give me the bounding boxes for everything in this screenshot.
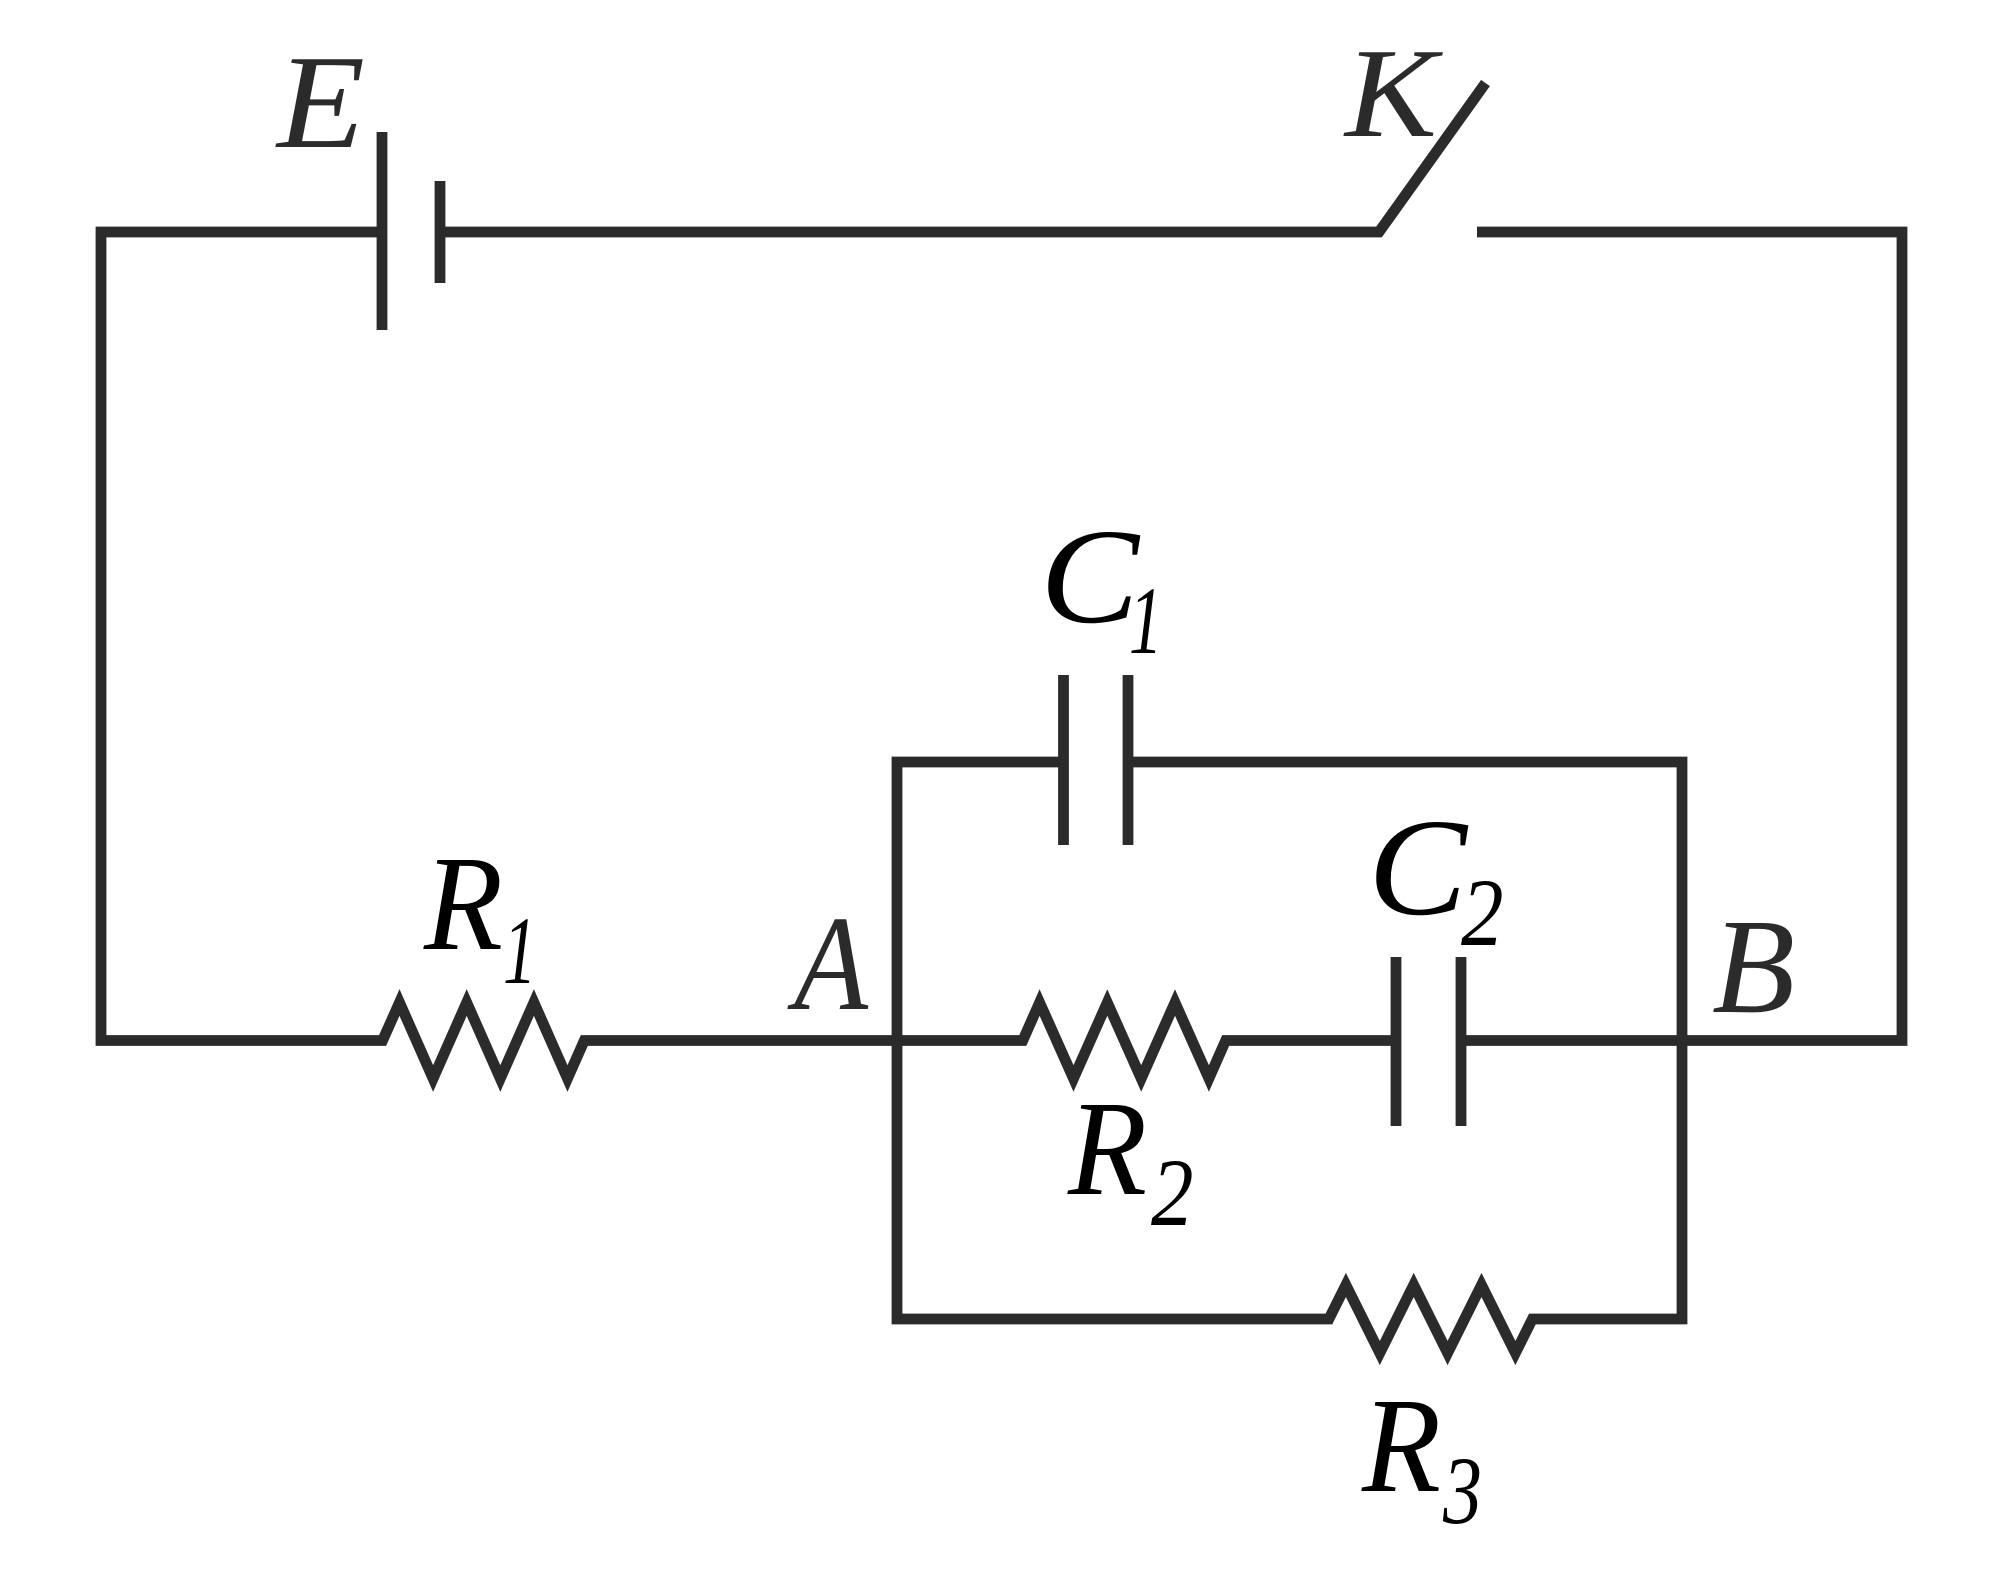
svg-text:1: 1	[503, 897, 537, 1004]
svg-text:2: 2	[1461, 859, 1504, 966]
svg-text:2: 2	[1151, 1139, 1194, 1246]
svg-text:C: C	[1368, 791, 1468, 945]
svg-text:C: C	[1040, 502, 1140, 652]
svg-text:3: 3	[1442, 1437, 1482, 1544]
svg-text:R: R	[1067, 1074, 1147, 1224]
svg-text:B: B	[1712, 892, 1795, 1042]
svg-text:K: K	[1343, 22, 1443, 164]
svg-text:R: R	[1361, 1371, 1441, 1521]
svg-text:E: E	[275, 28, 365, 176]
svg-text:A: A	[787, 889, 869, 1039]
svg-text:R: R	[423, 829, 503, 979]
svg-text:1: 1	[1129, 567, 1163, 674]
